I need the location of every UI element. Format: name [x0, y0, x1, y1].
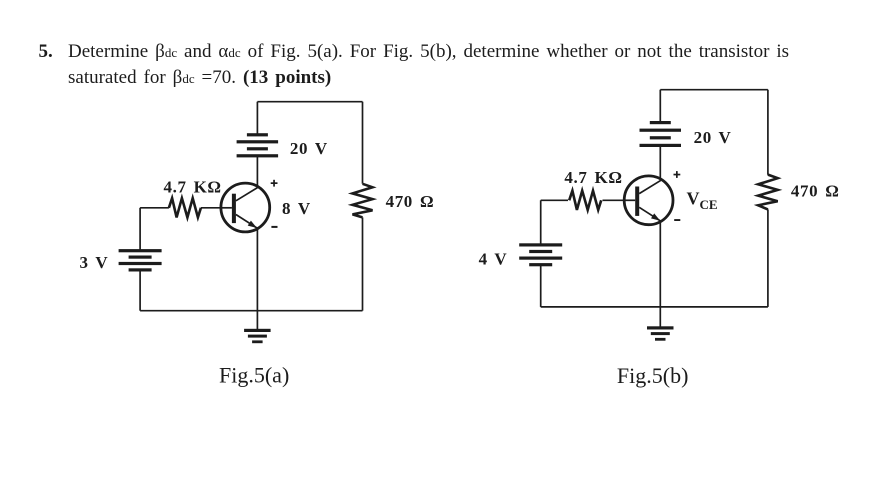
- svg-text:4 V: 4 V: [479, 250, 508, 269]
- svg-text:470 Ω: 470 Ω: [791, 182, 840, 201]
- svg-text:20 V: 20 V: [290, 139, 328, 158]
- svg-text:VCE: VCE: [687, 189, 718, 213]
- svg-text:470 Ω: 470 Ω: [386, 192, 435, 211]
- svg-text:8 V: 8 V: [282, 199, 311, 218]
- svg-text:3 V: 3 V: [80, 253, 109, 272]
- svg-text:Fig.5(b): Fig.5(b): [617, 363, 689, 388]
- svg-text:20 V: 20 V: [694, 128, 732, 147]
- svg-text:4.7 KΩ: 4.7 KΩ: [564, 168, 622, 187]
- svg-text:4.7 KΩ: 4.7 KΩ: [164, 177, 222, 196]
- svg-text:Fig.5(a): Fig.5(a): [219, 363, 289, 388]
